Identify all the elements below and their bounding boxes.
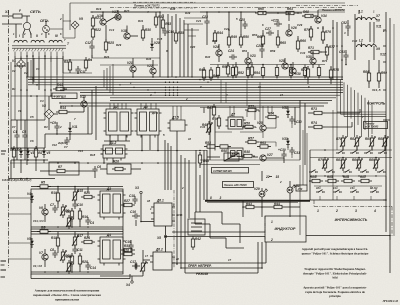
diode V3 <box>26 151 30 154</box>
cap C25 <box>242 23 247 25</box>
svg-text:R10: R10 <box>51 191 57 195</box>
svg-text:10: 10 <box>188 137 192 141</box>
svg-text:V6: V6 <box>39 206 43 210</box>
left column rail y96 <box>11 95 63 97</box>
small box right of D6 <box>188 219 205 235</box>
bus line 4 <box>28 84 343 86</box>
amp2 lower rail <box>200 159 300 161</box>
svg-text:15: 15 <box>276 175 280 179</box>
svg-text:V12: V12 <box>52 143 57 147</box>
svg-text:C27: C27 <box>265 27 271 31</box>
left column verticals <box>10 62 12 120</box>
intensity inner verticals <box>324 158 326 161</box>
wires from left border <box>9 197 31 199</box>
rail y163 <box>10 162 196 164</box>
svg-text:R66: R66 <box>300 39 306 43</box>
pot R17 <box>73 237 76 245</box>
intensity wires <box>342 146 344 150</box>
intensity left box <box>309 150 311 200</box>
amp2 drop wires <box>254 106 256 120</box>
resistor R13 <box>56 87 64 90</box>
rectifier V9 <box>71 21 79 29</box>
pot R12 <box>67 218 70 226</box>
channel1 wires <box>31 186 40 188</box>
svg-text:17: 17 <box>228 258 232 262</box>
switch S1.3 <box>350 191 353 193</box>
resistor R75 <box>329 70 332 78</box>
svg-text:R57: R57 <box>248 137 254 141</box>
pot R82 <box>355 138 358 146</box>
svg-text:C22: C22 <box>224 27 230 31</box>
svg-text:R43: R43 <box>212 39 218 43</box>
svg-text:C31: C31 <box>294 151 300 155</box>
svg-text:V24: V24 <box>213 45 219 49</box>
svg-text:Д3: Д3 <box>106 187 111 191</box>
svg-text:quence "Poljus-101". Schéma: quence "Poljus-101". Schéma électrique d… <box>302 252 369 256</box>
switch S1.2 <box>333 191 336 193</box>
hanging row rail <box>210 64 325 66</box>
pot R89 <box>374 160 377 168</box>
svg-text:R26: R26 <box>113 160 119 164</box>
ic feed wires D2 <box>109 103 111 109</box>
cap C30 <box>289 118 294 120</box>
amp riser links <box>184 17 207 19</box>
resistor R38 <box>244 154 252 157</box>
resistor R45 <box>198 155 201 163</box>
svg-text:R89: R89 <box>369 158 375 162</box>
resistor R7 <box>57 169 65 172</box>
svg-text:V28: V28 <box>279 59 285 63</box>
cap C23 <box>204 20 209 22</box>
svg-text:R51: R51 <box>222 65 228 69</box>
svg-text:C5: C5 <box>22 130 26 134</box>
svg-text:C29: C29 <box>297 23 303 27</box>
svg-text:14: 14 <box>280 93 284 97</box>
mid verticals <box>164 140 166 190</box>
svg-text:Помехи мЭК 730/93: Помехи мЭК 730/93 <box>224 184 247 187</box>
transistor V26 <box>286 30 292 36</box>
ic feed wires D15 <box>172 106 174 120</box>
IC D3 gates <box>100 191 123 217</box>
svg-text:2: 2 <box>270 238 273 242</box>
svg-text:R18: R18 <box>90 153 96 157</box>
top rail y12 left <box>90 11 345 13</box>
cap C27 <box>268 30 270 35</box>
resistor R22 <box>91 29 94 37</box>
pot R78 <box>341 138 344 146</box>
svg-text:8: 8 <box>210 196 212 200</box>
svg-text:R83: R83 <box>336 158 342 162</box>
svg-text:R59: R59 <box>270 49 276 53</box>
svg-text:C2: C2 <box>24 71 28 75</box>
svg-text:V34: V34 <box>321 14 327 18</box>
resistor R44 <box>274 205 282 208</box>
resistor R6 <box>40 230 48 233</box>
transistor V21 <box>130 66 136 72</box>
resistor R63b <box>260 145 268 148</box>
svg-text:R63: R63 <box>260 141 266 145</box>
digital wires <box>109 135 111 145</box>
long risers top <box>159 12 161 77</box>
svg-text:V27: V27 <box>267 153 273 157</box>
channel1 box <box>31 189 123 229</box>
wire bridge output <box>20 69 22 131</box>
svg-text:R56: R56 <box>244 122 250 126</box>
svg-text:V2: V2 <box>12 69 16 73</box>
resistor R53 <box>207 145 215 148</box>
svg-text:C34: C34 <box>200 125 206 129</box>
svg-text:I: I <box>19 34 20 38</box>
svg-text:V5: V5 <box>46 151 50 155</box>
bus line 1 <box>28 76 343 78</box>
fuse F <box>13 14 22 18</box>
cap C28 <box>259 48 264 50</box>
svg-text:R29: R29 <box>116 43 122 47</box>
svg-text:X12: X12 <box>379 53 386 57</box>
svg-text:R14: R14 <box>60 106 66 110</box>
filter cap C5 <box>22 134 27 136</box>
cap C52 <box>345 25 350 27</box>
inductor connector box <box>265 216 306 242</box>
zener V20 <box>150 44 154 47</box>
bus line 12 <box>60 105 324 107</box>
svg-text:4: 4 <box>146 10 149 14</box>
svg-text:X3: X3 <box>134 186 139 190</box>
svg-text:4: 4 <box>373 209 376 213</box>
svg-text:C14: C14 <box>168 30 174 34</box>
svg-text:C4: C4 <box>40 99 44 103</box>
svg-text:R39: R39 <box>185 11 191 15</box>
top dash-dot boundary <box>110 7 342 9</box>
svg-text:V10: V10 <box>80 95 86 99</box>
resistor R47 <box>212 107 215 115</box>
svg-text:R34: R34 <box>146 57 152 61</box>
resistor R68 <box>305 14 313 17</box>
svg-text:III: III <box>55 34 58 38</box>
pot R85 <box>370 138 373 146</box>
cap C19 <box>128 244 133 246</box>
contact row2 a <box>309 171 312 173</box>
margin mark c <box>1 276 6 278</box>
svg-text:C28: C28 <box>256 44 262 48</box>
svg-text:К-ВЗ,Э4(+В),К-ВЗ,Э4(+7): К-ВЗ,Э4(+В),К-ВЗ,Э4(+7) <box>2 179 32 182</box>
svg-text:переносный «Полюс-101». Схем: переносный «Полюс-101». Схема электричес… <box>33 293 101 297</box>
cap C8 <box>52 252 57 254</box>
margin mark a <box>1 150 6 152</box>
transformer T1 winding I <box>14 40 27 42</box>
svg-text:V35: V35 <box>306 55 312 59</box>
svg-text:R60: R60 <box>258 7 264 11</box>
IC D7 <box>228 117 243 129</box>
svg-text:Д7: Д7 <box>230 113 235 117</box>
resistor R24 <box>84 240 92 243</box>
resistor R57 <box>248 140 256 143</box>
svg-text:R55: R55 <box>248 105 254 109</box>
svg-text:4: 4 <box>225 93 228 97</box>
svg-text:R42: R42 <box>205 55 211 59</box>
resistor R74 <box>314 125 322 128</box>
cap C14b <box>85 264 90 266</box>
hanging resistor row on bus <box>216 68 219 76</box>
svg-text:R8: R8 <box>66 210 70 214</box>
IC D1.2 <box>103 145 125 158</box>
transistor V7 <box>42 254 48 260</box>
resistor R62 <box>261 36 264 44</box>
svg-text:R80: R80 <box>310 175 316 179</box>
resistor R10 <box>56 193 59 201</box>
svg-text:C4: C4 <box>90 221 94 225</box>
resistor R63 <box>286 11 294 14</box>
resistor R87 <box>361 179 369 182</box>
svg-text:R65: R65 <box>280 41 286 45</box>
bus junction dot grid <box>165 81 167 83</box>
contact row2 b <box>326 171 329 173</box>
regulator verticals <box>91 90 93 134</box>
transistor V22 <box>150 68 156 74</box>
svg-text:R72: R72 <box>301 68 307 72</box>
resistor R8 <box>70 211 73 219</box>
resistor R64 <box>268 115 276 118</box>
svg-text:2: 2 <box>185 97 188 101</box>
wire kontrol <box>325 112 360 114</box>
svg-text:C24: C24 <box>228 49 234 53</box>
resistor R42 <box>191 239 194 247</box>
label Gamma top <box>133 1 196 3</box>
wire indicator mesh <box>199 152 201 155</box>
svg-text:R7: R7 <box>58 165 62 169</box>
svg-text:V13,=C3: V13,=C3 <box>33 219 44 223</box>
margin mark b <box>1 260 7 262</box>
cap C13 <box>72 248 77 250</box>
resistor R1 <box>12 149 15 157</box>
svg-text:ИНТЕНСИВНОСТЬ: ИНТЕНСИВНОСТЬ <box>335 218 368 222</box>
svg-text:R30: R30 <box>145 28 151 32</box>
svg-text:R31: R31 <box>138 19 144 23</box>
resistor R35 <box>174 33 177 41</box>
svg-text:V31: V31 <box>282 106 288 110</box>
transistor V6 <box>42 209 48 215</box>
svg-text:11-: 11- <box>333 186 337 190</box>
relay box K1 <box>224 153 239 161</box>
top-right dash-dot boundary <box>296 5 358 7</box>
pot R86b <box>357 160 360 168</box>
svg-text:principio: principio <box>329 294 341 298</box>
contact row2 c <box>343 171 346 173</box>
analog box bottom line <box>31 278 130 280</box>
bus line 7 <box>80 92 343 94</box>
svg-text:C25: C25 <box>239 18 245 22</box>
wire r7 <box>40 170 54 172</box>
pot R88 <box>383 138 386 146</box>
svg-text:R21: R21 <box>84 191 90 195</box>
svg-text:X13,-5: X13,-5 <box>371 88 381 92</box>
wire left rails <box>16 120 18 132</box>
junction dots pass <box>26 55 28 57</box>
svg-text:X11: X11 <box>375 25 382 29</box>
transformer T1 secondary taps <box>14 52 16 57</box>
resistor R43 <box>246 205 254 208</box>
neon lamp HL1 <box>43 26 50 33</box>
resistor R66 <box>296 41 299 49</box>
IC D4 gates <box>100 237 123 263</box>
svg-text:R43: R43 <box>246 202 252 206</box>
pot R33b <box>141 263 144 271</box>
resistor R50 <box>239 37 242 45</box>
svg-text:22: 22 <box>265 175 270 179</box>
svg-text:ИНДУКТОР: ИНДУКТОР <box>275 227 296 231</box>
svg-text:R71: R71 <box>308 46 314 50</box>
intensity dash-dot box <box>314 206 392 208</box>
svg-text:3: 3 <box>220 196 222 200</box>
transistor V23 <box>245 58 251 64</box>
svg-text:R41: R41 <box>213 74 219 78</box>
wire to induktor <box>166 236 266 238</box>
svg-text:V29: V29 <box>254 187 260 191</box>
resistor R21 <box>91 18 94 26</box>
svg-text:R19: R19 <box>66 255 72 259</box>
transistor V25 <box>260 125 266 131</box>
svg-text:Аппарат для низкочастотной: Аппарат для низкочастотной магнитотерапи… <box>35 289 100 293</box>
resistor R71 <box>311 50 319 53</box>
bottom rail power <box>11 159 48 161</box>
pot R15 <box>73 192 76 200</box>
transistor V35 <box>310 58 316 64</box>
resistor R54 <box>250 67 253 75</box>
svg-text:Д6.1: Д6.1 <box>156 199 164 203</box>
svg-text:R79: R79 <box>318 158 324 162</box>
svg-text:X5: X5 <box>156 236 161 240</box>
svg-text:Д4: Д4 <box>106 233 111 237</box>
svg-text:R76: R76 <box>325 30 331 34</box>
svg-text:C5: C5 <box>30 115 34 119</box>
svg-text:R27: R27 <box>124 9 130 13</box>
svg-text:R64: R64 <box>268 112 274 116</box>
svg-text:R70: R70 <box>304 28 310 32</box>
svg-text:3: 3 <box>355 209 357 213</box>
svg-text:R53: R53 <box>252 33 258 37</box>
svg-text:КОНТРОЛЬ: КОНТРОЛЬ <box>367 102 386 106</box>
bus left risers <box>27 62 29 77</box>
right connector ticks <box>383 29 386 31</box>
svg-text:Д2: Д2 <box>113 105 118 109</box>
top amp rail y58 <box>92 57 160 59</box>
svg-text:C20: C20 <box>190 45 196 49</box>
svg-text:V2,=C2: V2,=C2 <box>33 264 43 268</box>
transistor V18 <box>124 33 130 39</box>
svg-text:R4: R4 <box>44 125 48 129</box>
cap C10 <box>72 203 77 205</box>
svg-text:V26: V26 <box>291 26 297 30</box>
svg-text:C6: C6 <box>30 139 34 143</box>
switch S1.1 <box>316 191 319 193</box>
resistor R18 <box>56 238 59 246</box>
mid cluster feed wires <box>229 106 231 117</box>
resistor R90 <box>377 73 380 81</box>
svg-text:C33: C33 <box>300 51 306 55</box>
top section frame <box>70 2 345 4</box>
diode V4 <box>30 196 34 199</box>
resistor R49 <box>227 37 230 45</box>
svg-text:V1: V1 <box>12 59 16 63</box>
wire mains to transformer <box>22 34 24 38</box>
left dash-dot border <box>8 10 10 268</box>
resistor R25 <box>104 42 107 50</box>
cap C7 <box>52 207 57 209</box>
svg-text:R27: R27 <box>124 199 130 203</box>
svg-text:L1: L1 <box>359 10 363 14</box>
top amp rail y65 <box>100 64 158 66</box>
resistor R81 <box>328 179 336 182</box>
zener V10a <box>68 128 72 131</box>
svg-text:2: 2 <box>59 17 62 21</box>
bus line 10 <box>110 99 332 101</box>
resistor R80 <box>312 179 320 182</box>
resistor R52 <box>234 67 237 75</box>
transformer T1 winding III <box>49 40 62 42</box>
svg-text:R19: R19 <box>96 7 102 11</box>
transistor V34 <box>315 17 321 23</box>
svg-text:R86: R86 <box>363 70 369 74</box>
svg-text:Д1.5: Д1.5 <box>171 116 179 120</box>
transistor V10 <box>81 101 87 107</box>
svg-text:V7: V7 <box>12 125 16 129</box>
LED H2 <box>287 187 293 193</box>
bus line 3 <box>28 81 343 83</box>
svg-text:R44: R44 <box>217 31 223 35</box>
resistor R72 <box>306 69 309 77</box>
pot R9 <box>61 207 64 215</box>
inductor L2 <box>357 45 367 47</box>
svg-text:R42: R42 <box>195 237 201 241</box>
resistor R65 <box>276 37 279 45</box>
cap C30b <box>281 153 286 155</box>
mid vertical bus <box>176 150 178 264</box>
ic feed wires D5 <box>140 103 142 109</box>
svg-text:C18: C18 <box>129 194 135 198</box>
node rail y178 <box>9 178 55 180</box>
cap C9 <box>54 125 59 127</box>
boxed label pomehi right <box>364 122 388 129</box>
pot R48 <box>207 124 210 132</box>
svg-text:V22: V22 <box>147 64 153 68</box>
IC D1.5 <box>170 120 185 131</box>
cap C53 <box>343 54 348 56</box>
resistor R3 <box>68 62 71 70</box>
IC D6.2 <box>153 252 172 270</box>
svg-text:R74: R74 <box>311 121 317 125</box>
svg-text:R49: R49 <box>231 35 237 39</box>
svg-text:+C26: +C26 <box>271 19 279 23</box>
svg-text:C12: C12 <box>85 41 91 45</box>
svg-text:C15: C15 <box>157 37 163 41</box>
wire bottom right join <box>306 235 390 237</box>
bus line 6 <box>60 89 343 91</box>
transistor V28 <box>282 63 288 69</box>
resistor R41 <box>209 70 212 78</box>
svg-text:R35: R35 <box>178 31 184 35</box>
bridge V8 <box>44 109 54 119</box>
cap C26 <box>276 21 278 26</box>
contact row1 b <box>350 152 353 154</box>
step wires lower <box>194 212 196 224</box>
svg-text:СЕТЬ: СЕТЬ <box>30 9 41 14</box>
svg-text:R77: R77 <box>329 45 335 49</box>
svg-text:2: 2 <box>335 209 338 213</box>
filter box R26 <box>107 164 131 174</box>
left rail wires <box>13 160 15 168</box>
IC D6.1 <box>154 203 172 226</box>
svg-text:Помехи мЭК 730/73: Помехи мЭК 730/73 <box>134 4 160 8</box>
